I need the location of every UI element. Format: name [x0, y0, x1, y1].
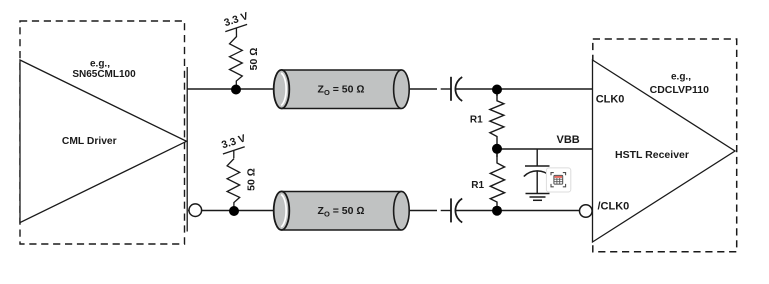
svg-text:R1: R1	[470, 115, 483, 126]
svg-text:e.g.,: e.g.,	[671, 72, 691, 83]
svg-text:50 Ω: 50 Ω	[248, 48, 260, 71]
svg-text:e.g.,: e.g.,	[90, 58, 110, 69]
svg-text:CDCLVP110: CDCLVP110	[650, 84, 709, 96]
svg-text:SN65CML100: SN65CML100	[72, 69, 136, 80]
svg-text:VBB: VBB	[557, 134, 580, 146]
svg-text:R1: R1	[471, 180, 484, 191]
svg-text:CML Driver: CML Driver	[62, 136, 117, 147]
svg-text:CLK0: CLK0	[596, 94, 625, 106]
svg-text:/CLK0: /CLK0	[598, 201, 630, 213]
svg-text:HSTL Receiver: HSTL Receiver	[615, 149, 689, 161]
svg-text:50 Ω: 50 Ω	[246, 168, 258, 191]
